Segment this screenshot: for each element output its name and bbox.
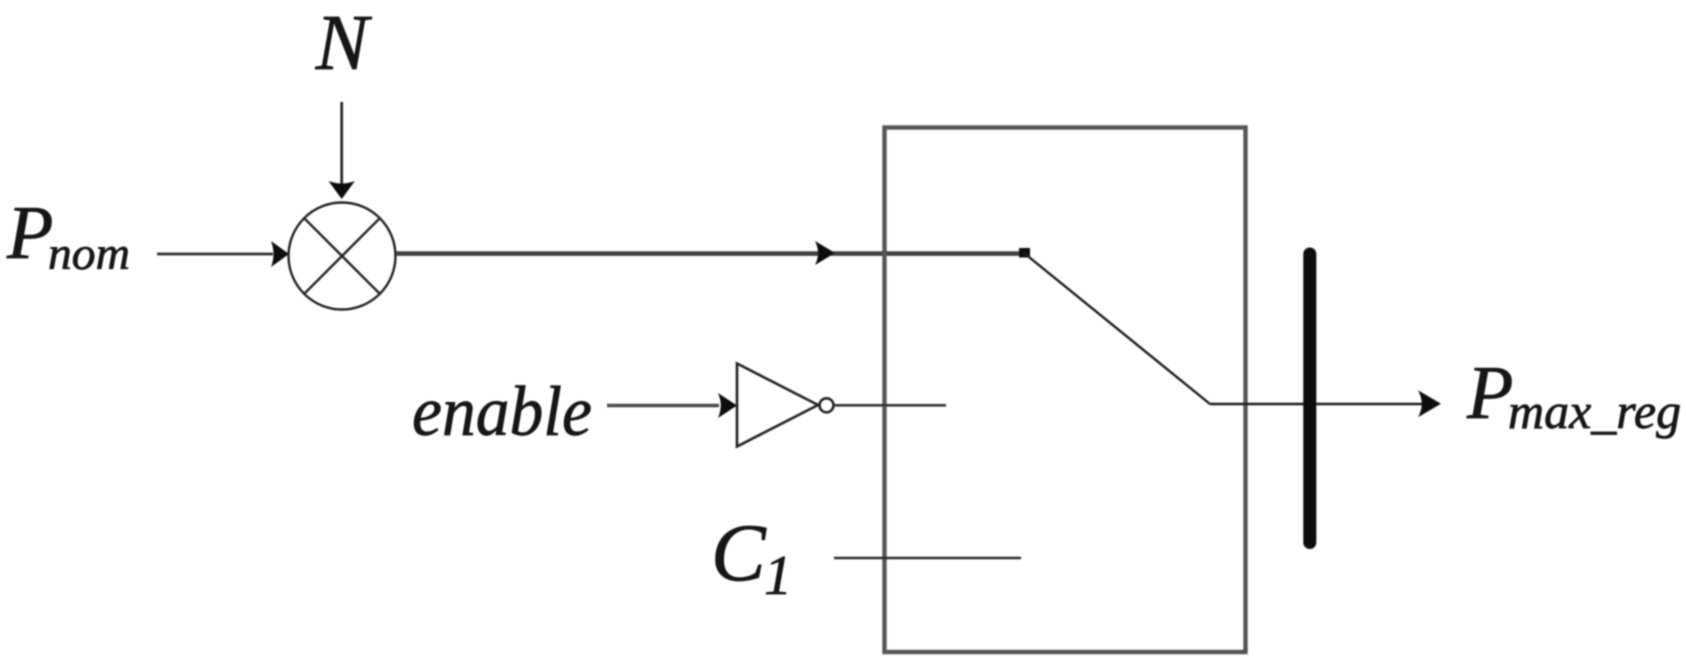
- wire enable input arrow: [607, 393, 737, 418]
- switch block S1: [885, 128, 1246, 653]
- svg-text:P: P: [6, 191, 53, 275]
- wire C1 input: [834, 557, 1021, 560]
- wire switch output: [1210, 403, 1428, 405]
- wire multiplier output to switch: [396, 241, 1024, 265]
- multiplier U1: [289, 203, 396, 310]
- svg-text:P: P: [1466, 351, 1513, 435]
- output arrowhead: [1418, 390, 1441, 417]
- switch pivot node: [1019, 248, 1030, 258]
- node Pmax_reg label: [1466, 351, 1681, 439]
- bus bar: [1303, 254, 1316, 543]
- svg-text:nom: nom: [48, 228, 130, 280]
- node C1 label: [711, 507, 792, 607]
- svg-text:C: C: [711, 507, 767, 598]
- wire N input arrow: [329, 102, 355, 199]
- svg-text:1: 1: [764, 545, 792, 607]
- wire Pnom input arrow: [157, 241, 289, 267]
- inverter U2: [737, 364, 834, 447]
- wire inverter output into switch block: [834, 404, 946, 407]
- switch pole (diagonal): [1024, 253, 1210, 404]
- node Pnom label: [6, 191, 130, 280]
- svg-text:enable: enable: [412, 373, 592, 451]
- svg-text:max_reg: max_reg: [1508, 383, 1681, 439]
- svg-text:N: N: [315, 0, 373, 87]
